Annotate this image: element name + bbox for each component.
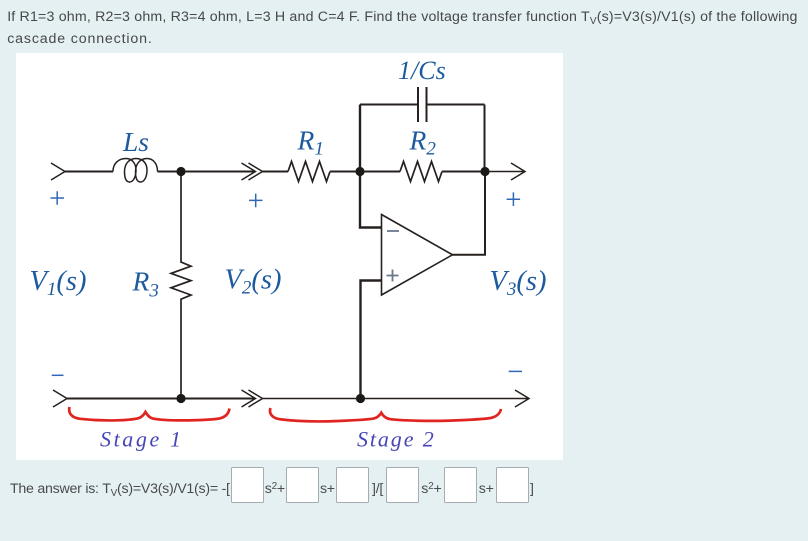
resistor R2	[400, 162, 442, 182]
capacitor plates	[418, 87, 427, 122]
wire inductor to node A	[158, 171, 256, 173]
capacitor 1/Cs loop top wire right	[427, 104, 485, 106]
bottom input arrow	[53, 390, 67, 407]
svg-text:V1(s): V1(s)	[30, 266, 87, 300]
wire cap left down to node B and op-amp minus input	[360, 105, 382, 228]
svg-text:R1: R1	[297, 124, 324, 159]
plus sign middle	[249, 194, 263, 208]
wire cap right down to node C	[484, 105, 486, 172]
op-amp minus sign	[387, 230, 399, 232]
svg-text:Stage 1: Stage 1	[100, 427, 184, 452]
resistor R3 vertical	[171, 172, 191, 399]
red brace stage 2	[270, 408, 501, 421]
op-amp U1 triangle	[382, 215, 453, 296]
minus sign right	[509, 370, 522, 372]
inductor Ls	[113, 159, 158, 183]
wire R2 to node C	[442, 171, 485, 173]
plus sign right	[507, 192, 520, 206]
svg-text:V2(s): V2(s)	[225, 265, 282, 299]
node A dot	[176, 167, 185, 176]
wire node B to R2	[360, 171, 400, 173]
minus sign left	[52, 374, 64, 376]
wire R1 to node B	[330, 171, 360, 173]
bottom rail left	[67, 398, 255, 400]
node B2 dot bottom	[356, 394, 365, 403]
node A2 dot bottom	[176, 394, 185, 403]
input arrow top-left	[51, 163, 65, 180]
double chevron bottom	[242, 390, 263, 407]
wire op-amp plus input down to bottom rail	[361, 281, 382, 399]
resistor R1	[288, 162, 330, 182]
svg-text:V3(s): V3(s)	[490, 266, 547, 300]
bottom rail right	[263, 390, 530, 407]
svg-text:R3: R3	[132, 266, 159, 302]
svg-text:R2: R2	[409, 124, 437, 159]
op-amp plus sign	[387, 270, 399, 282]
plus sign left	[51, 191, 65, 205]
node B dot	[355, 167, 364, 176]
svg-text:Stage 2: Stage 2	[357, 427, 436, 452]
node C dot	[480, 167, 489, 176]
wire chevron to R1	[263, 171, 289, 173]
red brace stage 1	[69, 407, 229, 420]
svg-text:1/Cs: 1/Cs	[398, 56, 446, 85]
wire op-amp output up to node C	[453, 172, 486, 255]
svg-text:Ls: Ls	[122, 126, 149, 157]
white circuit panel	[16, 53, 563, 460]
capacitor 1/Cs loop top wire left	[360, 104, 418, 106]
wire input to inductor	[64, 171, 113, 173]
output arrow top-right	[485, 163, 525, 180]
double chevron top	[242, 163, 263, 180]
